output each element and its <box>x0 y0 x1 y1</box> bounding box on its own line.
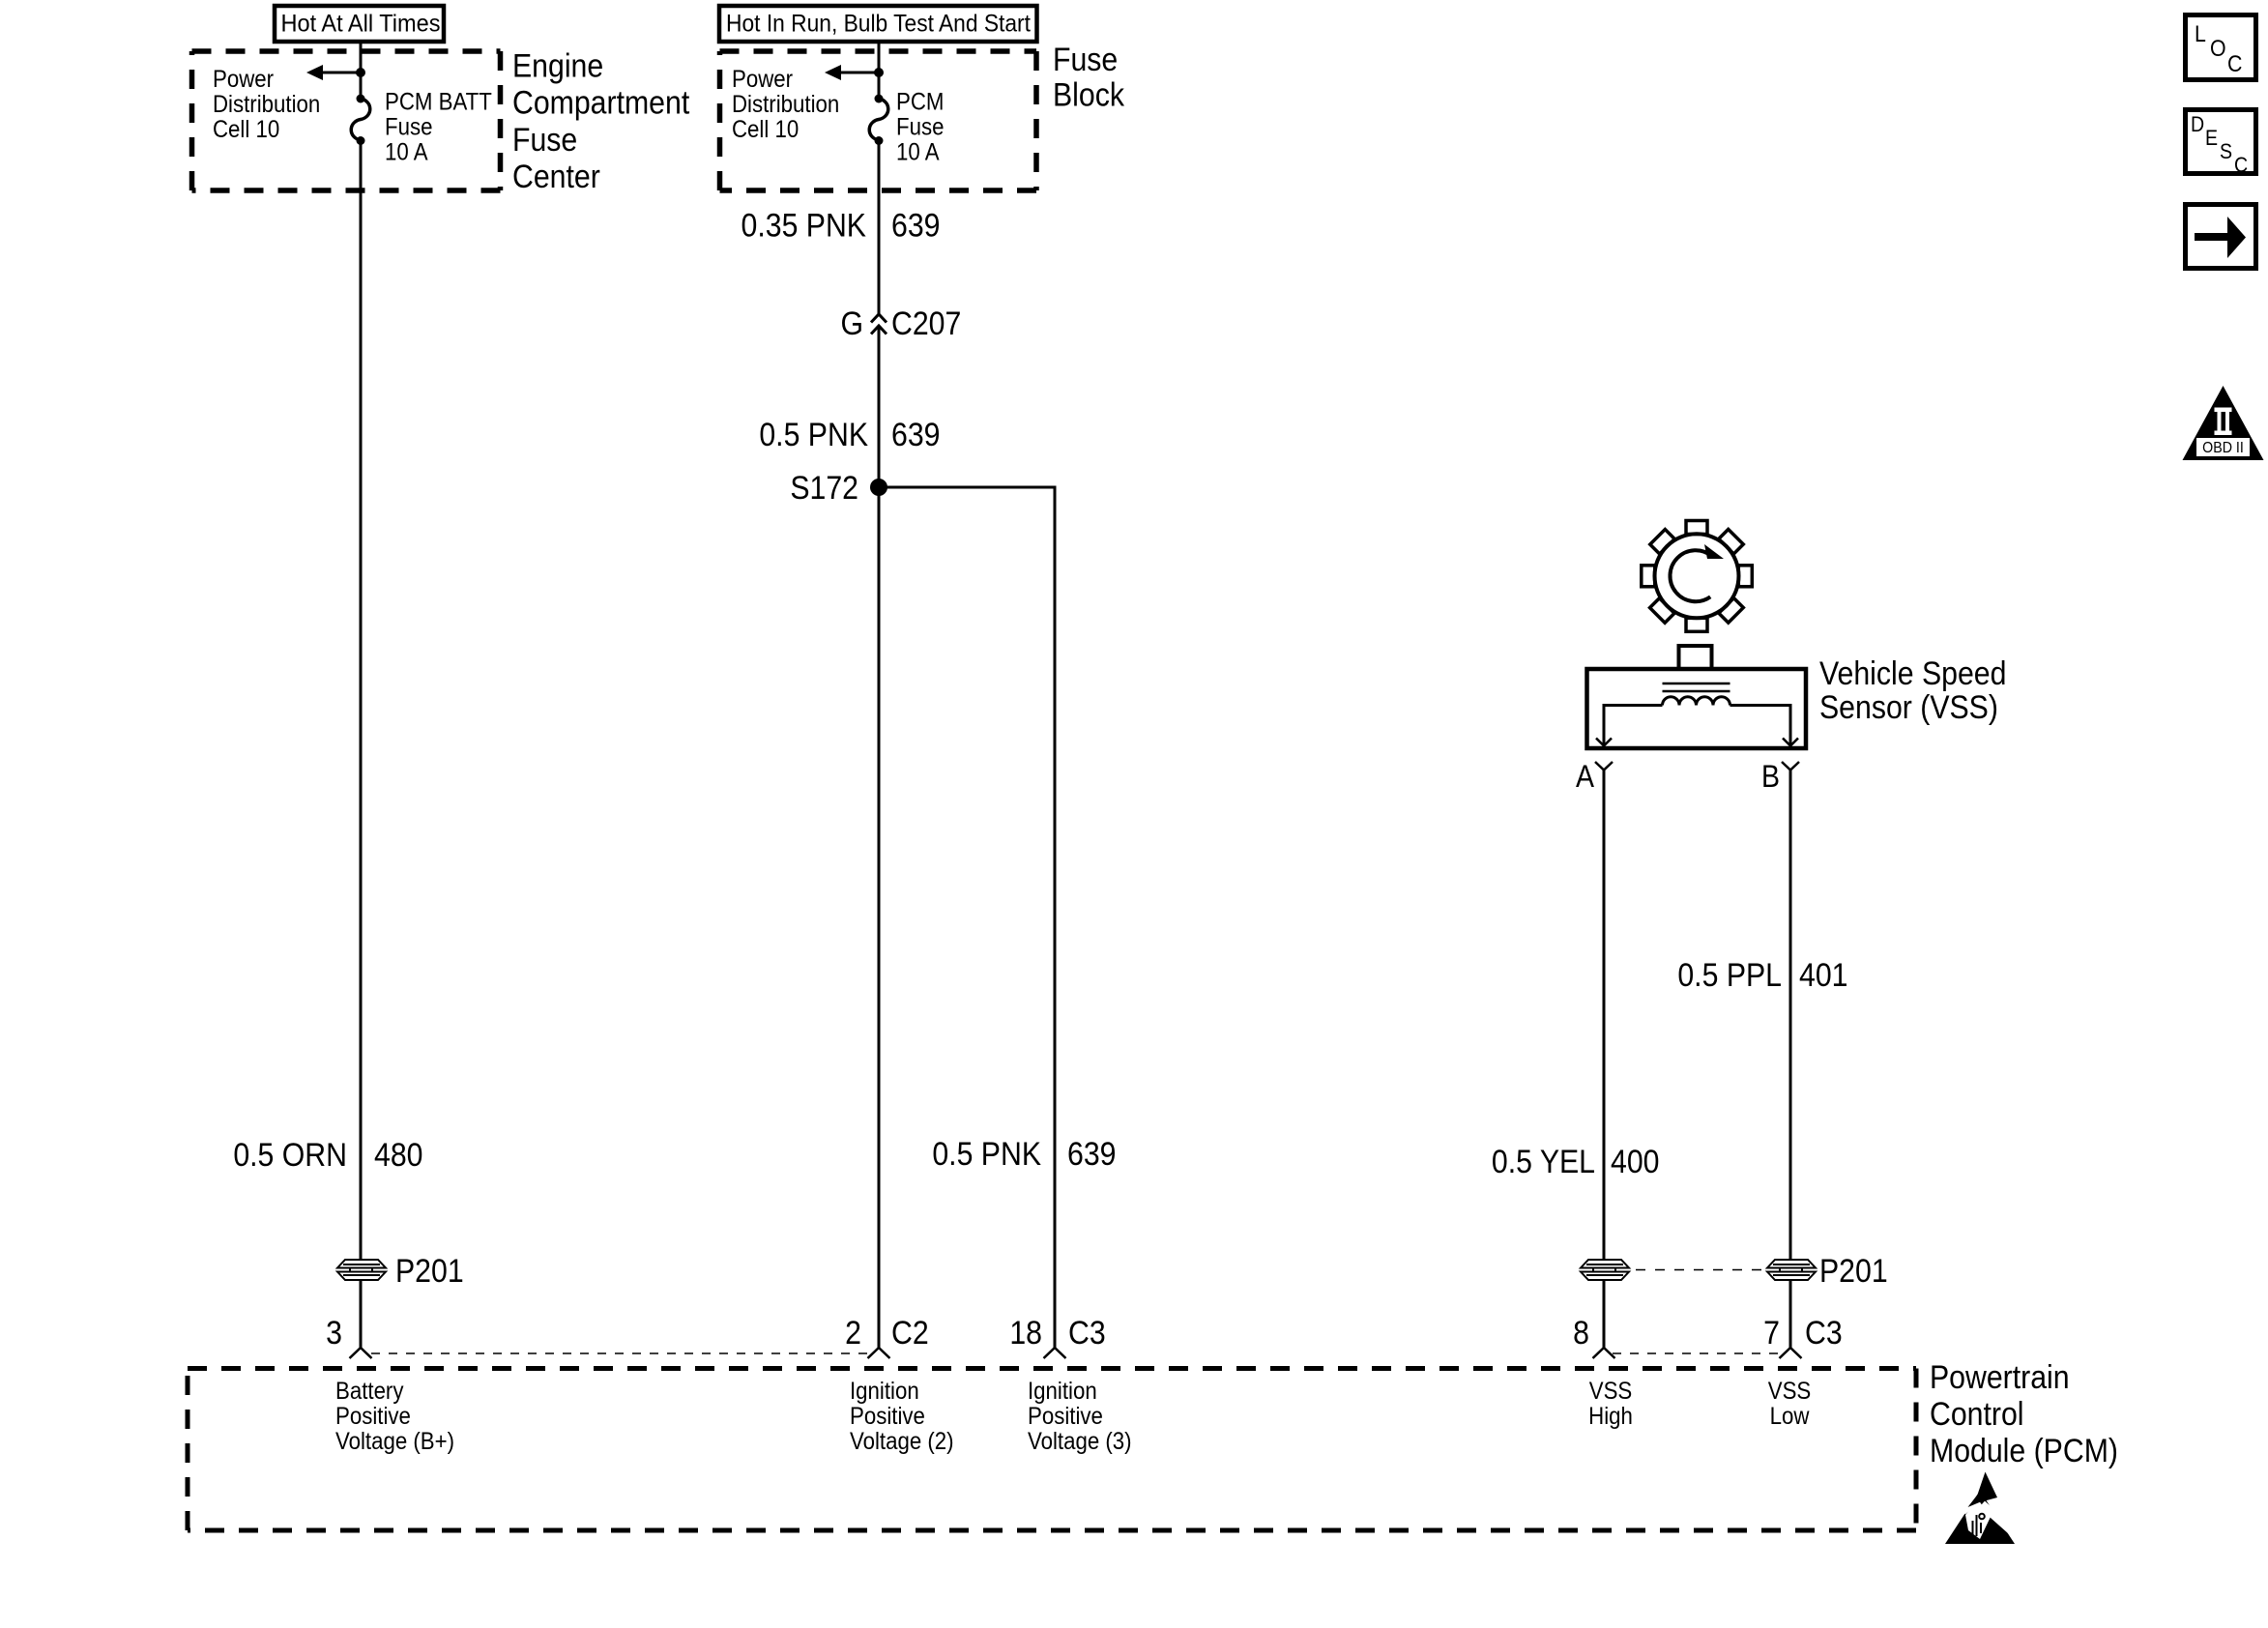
svg-text:401: 401 <box>1799 956 1847 993</box>
svg-text:Cell 10: Cell 10 <box>732 117 799 143</box>
text: Power Distribution Cell 10 <box>213 67 320 143</box>
wire: 0.5 PPL 401 (VSS low) <box>1789 770 1792 1260</box>
text: Power Distribution Cell 10 <box>732 67 839 143</box>
inline connector P201 (grommet, VSS high) <box>1581 1260 1629 1280</box>
wire label: 0.5 ORN 480 <box>233 1136 422 1173</box>
text: Ignition Positive Voltage (2) <box>850 1379 954 1455</box>
svg-text:Cell 10: Cell 10 <box>213 117 279 143</box>
connector alignment dashed line pins 3-2 <box>371 1352 867 1354</box>
svg-text:Voltage (B+): Voltage (B+) <box>335 1429 454 1455</box>
svg-text:D: D <box>2191 113 2204 136</box>
svg-text:Battery: Battery <box>335 1379 404 1405</box>
VSS sensor tip <box>1679 646 1712 669</box>
pin 18 terminal caret <box>1044 1348 1066 1358</box>
svg-text:PCM: PCM <box>896 89 944 115</box>
dashed link between P201 grommets <box>1636 1269 1767 1271</box>
svg-text:Voltage (3): Voltage (3) <box>1028 1429 1132 1455</box>
svg-text:Sensor (VSS): Sensor (VSS) <box>1819 688 1998 725</box>
VSS reluctor gear teeth <box>1642 521 1753 632</box>
svg-text:S: S <box>2220 140 2232 163</box>
corner icon: arrow box <box>2186 205 2256 269</box>
wire: 0.5 PNK 639 from C207 to S172 <box>878 326 881 487</box>
svg-text:Engine: Engine <box>512 47 603 84</box>
text: pin 7 C3 <box>1763 1314 1843 1351</box>
svg-text:Distribution: Distribution <box>732 92 839 118</box>
wire: below P201 to PCM pin 3 <box>360 1280 363 1348</box>
wire: battery feed into fuse box <box>360 42 363 99</box>
fuse box: Engine Compartment Fuse Center (dashed) <box>192 51 501 190</box>
wire: below P201 to pin 7 <box>1789 1280 1792 1348</box>
svg-text:S172: S172 <box>790 469 858 506</box>
text: PCM Fuse 10 A <box>896 89 944 165</box>
svg-text:Center: Center <box>512 158 600 194</box>
svg-text:0.5 ORN: 0.5 ORN <box>233 1136 347 1173</box>
ESD sensitive device symbol <box>1945 1472 2025 1545</box>
fuse box: Fuse Block (dashed) <box>720 51 1037 190</box>
connector C207 (in-line, female/male halves) <box>871 314 887 334</box>
PCM box: Powertrain Control Module (dashed) <box>188 1369 1916 1531</box>
wire: 0.35 PNK 639 from fuse block to C207 <box>878 141 881 315</box>
svg-text:0.5 YEL: 0.5 YEL <box>1492 1143 1595 1179</box>
svg-text:G: G <box>840 305 863 341</box>
svg-text:3: 3 <box>326 1314 342 1351</box>
svg-text:Module (PCM): Module (PCM) <box>1930 1432 2118 1468</box>
svg-text:C: C <box>2227 50 2242 76</box>
svg-text:B: B <box>1761 761 1780 795</box>
svg-text:Vehicle Speed: Vehicle Speed <box>1819 654 2006 691</box>
svg-text:P201: P201 <box>1819 1252 1888 1289</box>
svg-text:Low: Low <box>1770 1404 1811 1430</box>
text: Vehicle Speed Sensor (VSS) <box>1819 654 2006 725</box>
svg-text:18: 18 <box>1009 1314 1042 1351</box>
svg-text:Control: Control <box>1930 1395 2024 1432</box>
text: Ignition Positive Voltage (3) <box>1028 1379 1132 1455</box>
svg-text:Positive: Positive <box>1028 1404 1103 1430</box>
svg-text:2: 2 <box>845 1314 861 1351</box>
svg-text:VSS: VSS <box>1589 1379 1633 1405</box>
coil lead B with arrow <box>1730 706 1791 745</box>
node: junction dot <box>356 68 365 77</box>
text: VSS Low <box>1768 1379 1812 1430</box>
svg-text:0.5 PNK: 0.5 PNK <box>932 1135 1041 1172</box>
svg-text:VSS: VSS <box>1768 1379 1812 1405</box>
sensor coil <box>1663 697 1730 706</box>
corner icon: LOC box <box>2186 15 2256 80</box>
svg-text:Powertrain: Powertrain <box>1930 1358 2070 1395</box>
wire label: 0.5 PNK 639 (branch) <box>932 1135 1116 1172</box>
wire: branch from S172 to pin 18 <box>879 487 1055 1348</box>
pin 2 terminal caret <box>868 1348 890 1358</box>
svg-text:PCM BATT: PCM BATT <box>385 89 492 115</box>
svg-text:C: C <box>2234 154 2248 177</box>
svg-text:10 A: 10 A <box>896 139 940 165</box>
node: junction dot <box>874 68 884 77</box>
svg-text:E: E <box>2205 127 2218 150</box>
wire: ignition feed into fuse block <box>878 42 881 99</box>
splice S172 <box>870 479 887 496</box>
svg-text:C2: C2 <box>891 1314 929 1351</box>
label box: Hot At All Times <box>275 6 444 42</box>
inline connector P201 (left grommet) <box>337 1260 386 1280</box>
rotation arrow inside gear <box>1670 550 1712 601</box>
VSS reluctor gear body <box>1655 534 1739 618</box>
inline connector P201 (grommet, VSS low) <box>1767 1260 1816 1280</box>
svg-text:A: A <box>1576 761 1595 795</box>
text: Engine Compartment Fuse Center <box>512 47 689 195</box>
pin 7 terminal caret <box>1780 1348 1802 1358</box>
pin 3 terminal caret <box>350 1348 372 1358</box>
svg-text:7: 7 <box>1763 1314 1780 1351</box>
svg-text:Fuse: Fuse <box>385 114 432 140</box>
sensor core lines <box>1663 683 1730 685</box>
svg-text:480: 480 <box>374 1136 422 1173</box>
wire: 0.5 ORN 480 vertical <box>360 141 363 1260</box>
svg-text:High: High <box>1588 1404 1633 1430</box>
wire: arrow to power distribution <box>839 72 879 74</box>
wire: below P201 to pin 8 <box>1603 1280 1606 1348</box>
svg-text:Block: Block <box>1053 76 1125 113</box>
pin A connector V <box>1595 762 1613 770</box>
text: PCM BATT Fuse 10 A <box>385 89 492 165</box>
wire: arrow to power distribution <box>321 72 361 74</box>
svg-text:639: 639 <box>1067 1135 1116 1172</box>
svg-text:639: 639 <box>891 207 940 244</box>
text: VSS High <box>1588 1379 1633 1430</box>
svg-text:L: L <box>2195 20 2206 46</box>
pin 8 terminal caret <box>1593 1348 1615 1358</box>
wire label: 0.5 PNK 639 <box>759 416 940 452</box>
coil lead A with arrow <box>1604 706 1663 745</box>
svg-text:0.5 PPL: 0.5 PPL <box>1677 956 1782 993</box>
wire: 0.5 PNK 639 from S172 down to pin 2 <box>878 487 881 1348</box>
svg-text:Power: Power <box>732 67 793 93</box>
wire label: 0.35 PNK 639 <box>741 207 941 244</box>
connector alignment dashed line pins 8-7 <box>1613 1352 1779 1354</box>
svg-text:P201: P201 <box>395 1252 464 1289</box>
svg-text:C3: C3 <box>1068 1314 1106 1351</box>
svg-text:Positive: Positive <box>335 1404 411 1430</box>
svg-text:Ignition: Ignition <box>1028 1379 1097 1405</box>
svg-text:O: O <box>2210 35 2226 61</box>
svg-text:Compartment: Compartment <box>512 84 689 121</box>
svg-text:639: 639 <box>891 416 940 452</box>
svg-text:Distribution: Distribution <box>213 92 320 118</box>
text: pin 2 C2 <box>845 1314 929 1351</box>
fuse PCM BATT 10A <box>351 95 370 146</box>
svg-text:Fuse: Fuse <box>1053 41 1118 77</box>
svg-text:Positive: Positive <box>850 1404 925 1430</box>
wire: 0.5 YEL 400 (VSS high) <box>1603 770 1606 1260</box>
svg-text:400: 400 <box>1611 1143 1659 1179</box>
svg-text:C207: C207 <box>891 305 961 341</box>
svg-text:Voltage (2): Voltage (2) <box>850 1429 954 1455</box>
text: Fuse Block <box>1053 41 1125 113</box>
corner icon: OBD II triangle <box>2183 386 2264 460</box>
svg-text:Hot In Run, Bulb Test And Star: Hot In Run, Bulb Test And Start <box>726 11 1031 38</box>
VSS sensor box <box>1587 669 1807 748</box>
wire label: 0.5 YEL 400 <box>1492 1143 1660 1179</box>
svg-text:10 A: 10 A <box>385 139 428 165</box>
fuse PCM 10A <box>869 95 888 146</box>
svg-text:OBD II: OBD II <box>2202 439 2244 456</box>
svg-text:Fuse: Fuse <box>512 121 577 158</box>
corner icon: DESC box <box>2186 110 2256 178</box>
wire label: 0.5 PPL 401 <box>1677 956 1847 993</box>
text: pin 18 C3 <box>1009 1314 1105 1351</box>
svg-text:8: 8 <box>1573 1314 1589 1351</box>
svg-text:C3: C3 <box>1805 1314 1843 1351</box>
svg-text:Hot At All Times: Hot At All Times <box>281 11 441 38</box>
svg-text:Ignition: Ignition <box>850 1379 919 1405</box>
svg-text:Power: Power <box>213 67 274 93</box>
svg-text:0.35 PNK: 0.35 PNK <box>741 207 867 244</box>
pin B connector V <box>1782 762 1799 770</box>
text: G C207 <box>840 305 961 341</box>
text: Powertrain Control Module (PCM) <box>1930 1358 2118 1468</box>
svg-text:Fuse: Fuse <box>896 114 944 140</box>
svg-text:0.5 PNK: 0.5 PNK <box>759 416 868 452</box>
text: Battery Positive Voltage (B+) <box>335 1379 454 1455</box>
label box: Hot In Run, Bulb Test And Start <box>719 6 1037 42</box>
